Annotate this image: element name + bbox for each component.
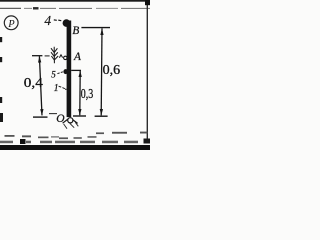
leader 5	[57, 72, 63, 74]
dash near O	[49, 113, 57, 115]
svg-text:5: 5	[51, 70, 56, 80]
top-right corner blob	[145, 0, 150, 5]
bottom tick 0,4	[33, 116, 48, 118]
pivot support	[63, 118, 78, 124]
extension tick at B level	[81, 27, 110, 29]
bottom dash black blob	[20, 139, 26, 144]
bottom-right black blob	[144, 139, 151, 144]
dash to plant	[45, 55, 50, 57]
bottom tick 0,3	[73, 115, 86, 117]
dimension line 0,6	[100, 28, 104, 115]
paper background	[0, 0, 150, 150]
bottom scan edge black bar	[0, 145, 150, 150]
svg-text:0,3: 0,3	[81, 87, 94, 102]
leader 1	[59, 86, 67, 90]
pivot hatching	[64, 122, 79, 128]
dimension line 0,4	[32, 55, 42, 57]
dot 5 on rod	[63, 69, 67, 74]
svg-text:4: 4	[44, 13, 51, 28]
circled P marker	[4, 16, 18, 30]
top dashed gray rule	[0, 7, 150, 9]
point B dot	[63, 19, 71, 27]
ring at A	[64, 56, 67, 59]
left edge dash marks	[0, 37, 3, 122]
right scan rule	[147, 3, 148, 141]
svg-text:B: B	[72, 25, 79, 37]
plant symbol	[51, 47, 63, 63]
svg-text:1: 1	[54, 83, 59, 94]
svg-text:A: A	[73, 51, 81, 63]
bottom gray dash row	[0, 141, 138, 144]
bottom tick 0,6	[95, 115, 108, 117]
svg-text:O: O	[56, 113, 65, 125]
svg-text:0,6: 0,6	[103, 63, 121, 78]
rod OB	[67, 21, 72, 118]
svg-text:0,4: 0,4	[24, 76, 43, 91]
svg-text:P: P	[7, 19, 15, 30]
dimension line 0,3	[71, 69, 81, 71]
mid dashed remnants row	[5, 132, 148, 139]
top scan edge black strip	[0, 0, 150, 2]
leader 4	[54, 19, 62, 22]
